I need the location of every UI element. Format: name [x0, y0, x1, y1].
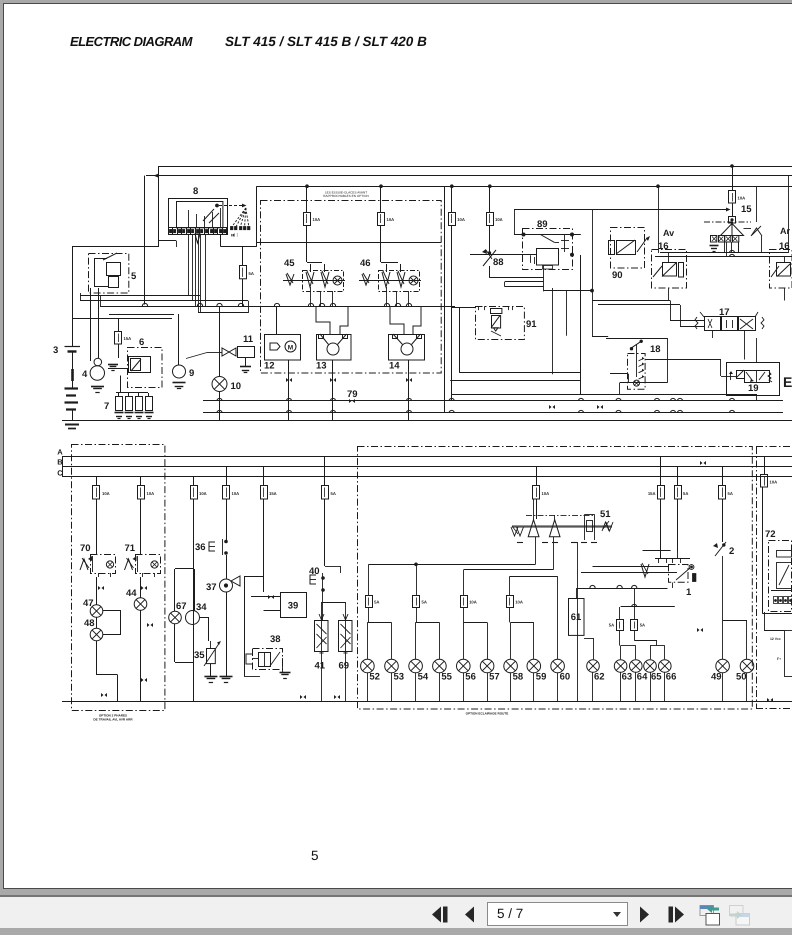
svg-text:66: 66	[666, 672, 677, 683]
svg-text:10A: 10A	[232, 491, 240, 496]
svg-text:5A: 5A	[249, 271, 254, 276]
svg-text:36: 36	[195, 542, 206, 553]
svg-text:71: 71	[125, 543, 136, 554]
svg-text:63: 63	[622, 672, 633, 683]
svg-text:5: 5	[131, 271, 137, 282]
svg-text:38: 38	[270, 634, 281, 645]
svg-text:10A: 10A	[469, 600, 477, 605]
svg-text:54: 54	[418, 672, 429, 683]
svg-text:69: 69	[339, 661, 350, 672]
svg-text:5A: 5A	[422, 600, 427, 605]
svg-text:41: 41	[315, 661, 326, 672]
svg-text:13: 13	[316, 361, 327, 372]
svg-text:46: 46	[360, 258, 371, 269]
svg-text:M: M	[288, 345, 293, 352]
svg-text:RAPPROCHABLES EN OPTION: RAPPROCHABLES EN OPTION	[323, 194, 368, 198]
svg-text:10A: 10A	[495, 217, 503, 222]
svg-text:Av: Av	[663, 228, 674, 238]
svg-text:12: 12	[264, 361, 275, 372]
svg-text:5A: 5A	[331, 491, 336, 496]
svg-text:50: 50	[736, 672, 747, 683]
svg-text:3: 3	[53, 345, 58, 356]
svg-text:61: 61	[571, 612, 582, 623]
svg-text:44: 44	[126, 588, 137, 599]
svg-text:55: 55	[441, 672, 452, 683]
svg-text:51: 51	[600, 509, 611, 520]
svg-text:6: 6	[139, 337, 144, 348]
svg-text:2: 2	[729, 546, 734, 557]
svg-text:67: 67	[176, 601, 187, 612]
svg-text:10A: 10A	[147, 491, 155, 496]
svg-text:52: 52	[369, 672, 380, 683]
svg-text:10A: 10A	[542, 491, 550, 496]
svg-text:4: 4	[82, 369, 88, 380]
svg-text:C: C	[57, 469, 63, 478]
svg-text:48: 48	[84, 618, 95, 629]
svg-text:90: 90	[612, 270, 623, 281]
svg-text:7: 7	[104, 401, 109, 412]
svg-text:10A: 10A	[102, 491, 110, 496]
svg-text:39: 39	[288, 601, 299, 612]
svg-text:56: 56	[465, 672, 476, 683]
svg-text:62: 62	[594, 672, 605, 683]
svg-text:19: 19	[748, 383, 759, 394]
svg-text:B: B	[57, 458, 63, 467]
svg-text:10: 10	[231, 381, 242, 392]
svg-text:5A: 5A	[374, 600, 379, 605]
svg-text:91: 91	[526, 319, 537, 330]
svg-text:14: 14	[389, 361, 400, 372]
svg-text:79: 79	[347, 389, 358, 400]
svg-text:11: 11	[243, 334, 254, 345]
svg-text:10A: 10A	[313, 217, 321, 222]
svg-text:88: 88	[493, 257, 504, 268]
svg-text:5A: 5A	[609, 623, 614, 628]
svg-text:9: 9	[189, 368, 194, 379]
svg-text:35: 35	[194, 650, 205, 661]
svg-text:10A: 10A	[387, 217, 395, 222]
svg-text:53: 53	[394, 672, 405, 683]
svg-text:8: 8	[193, 186, 198, 197]
svg-text:15A: 15A	[124, 336, 132, 341]
svg-text:5A: 5A	[683, 491, 688, 496]
svg-text:Ar: Ar	[780, 226, 790, 236]
svg-text:57: 57	[489, 672, 500, 683]
svg-text:37: 37	[206, 582, 217, 593]
svg-text:E: E	[783, 374, 792, 390]
svg-text:70: 70	[80, 543, 91, 554]
svg-text:10A: 10A	[770, 480, 778, 485]
svg-text:5A: 5A	[640, 623, 645, 628]
svg-text:18: 18	[650, 344, 661, 355]
svg-text:89: 89	[537, 219, 548, 230]
svg-text:10A: 10A	[738, 196, 746, 201]
svg-text:58: 58	[513, 672, 524, 683]
svg-text:10A: 10A	[457, 217, 465, 222]
svg-text:60: 60	[560, 672, 571, 683]
svg-text:15: 15	[741, 204, 752, 215]
svg-text:▮▮▏▏: ▮▮▏▏	[231, 233, 239, 237]
svg-text:12 Vcc: 12 Vcc	[770, 637, 781, 641]
svg-text:15A: 15A	[269, 491, 277, 496]
svg-text:64: 64	[637, 672, 648, 683]
svg-text:DE TRAVAIL AVL AVR ARR: DE TRAVAIL AVL AVR ARR	[93, 718, 133, 722]
svg-text:16: 16	[779, 241, 790, 252]
svg-text:5A: 5A	[728, 491, 733, 496]
svg-text:59: 59	[536, 672, 547, 683]
svg-text:45: 45	[284, 258, 295, 269]
svg-text:16: 16	[658, 241, 669, 252]
svg-text:15A: 15A	[648, 491, 656, 496]
svg-text:10A: 10A	[515, 600, 523, 605]
svg-text:34: 34	[196, 602, 207, 613]
svg-text:65: 65	[651, 672, 662, 683]
svg-text:49: 49	[711, 672, 722, 683]
svg-text:10A: 10A	[199, 491, 207, 496]
svg-text:72: 72	[765, 529, 776, 540]
svg-text:1: 1	[686, 587, 692, 598]
svg-text:OPTION ECLAIRAGE ROUTE: OPTION ECLAIRAGE ROUTE	[466, 712, 509, 716]
svg-text:F+: F+	[777, 657, 781, 661]
svg-text:A: A	[57, 448, 63, 457]
